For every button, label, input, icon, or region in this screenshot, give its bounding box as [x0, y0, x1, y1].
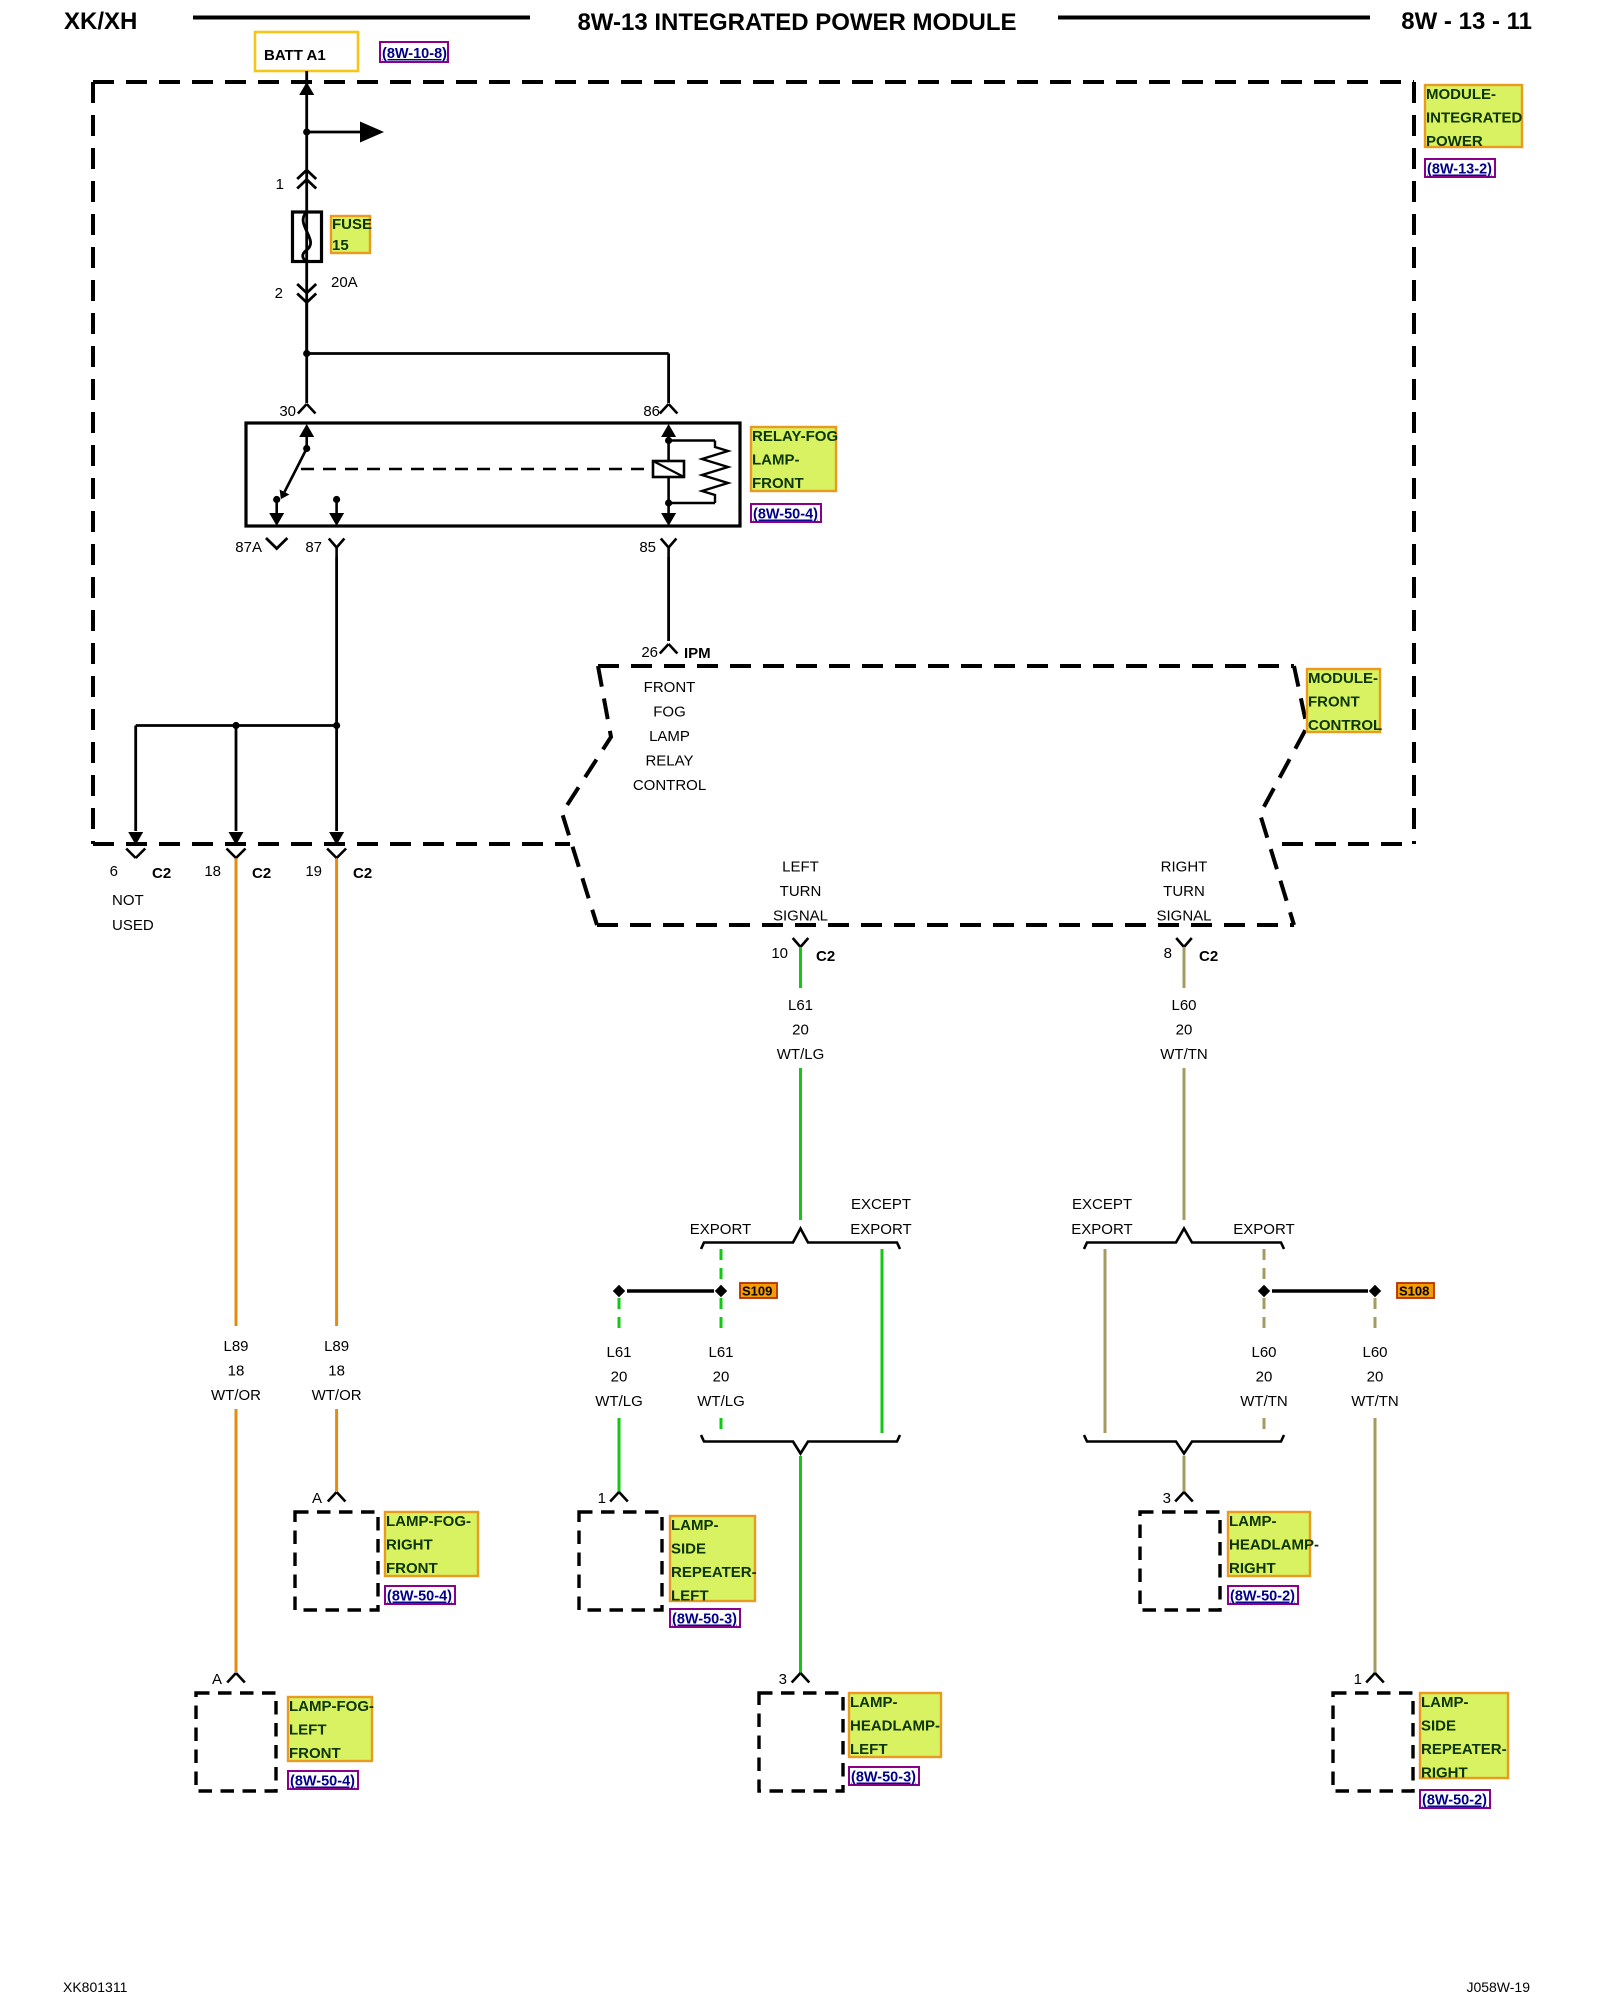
svg-text:(8W-50-4): (8W-50-4): [387, 1589, 452, 1605]
wire relay 85 to IPM pin 26: [667, 557, 670, 641]
svg-text:15: 15: [332, 237, 349, 254]
svg-text:LEFT: LEFT: [782, 859, 819, 876]
svg-text:20A: 20A: [331, 274, 358, 291]
svg-text:CONTROL: CONTROL: [633, 777, 706, 794]
svg-text:FRONT: FRONT: [386, 1560, 438, 1577]
svg-text:(8W-50-2): (8W-50-2): [1230, 1589, 1295, 1605]
label LAMP-FOG- RIGHT FRONT: [385, 1512, 478, 1576]
svg-text:LEFT: LEFT: [289, 1722, 327, 1739]
wire junction to relay pin 30: [305, 354, 308, 404]
svg-text:HEADLAMP-: HEADLAMP-: [1229, 1537, 1319, 1554]
wire below S109 left dashed: [618, 1298, 621, 1330]
label LAMP- SIDE REPEATER- RIGHT: [1420, 1693, 1508, 1778]
svg-text:WT/TN: WT/TN: [1351, 1393, 1398, 1410]
relay pin 85 arrow: [661, 513, 676, 526]
wire below S109 down dashed: [720, 1298, 723, 1330]
relay K1 RELAY-FOG LAMP-FRONT box: [246, 423, 740, 526]
svg-text:WT/LG: WT/LG: [697, 1393, 745, 1410]
label RELAY-FOG LAMP- FRONT: [751, 427, 836, 491]
relay pin 87A arrow: [269, 513, 284, 526]
brace split left turn signal: [701, 1229, 900, 1250]
wire to pin 18: [235, 726, 238, 832]
svg-text:86: 86: [643, 403, 660, 420]
node splice to pin 18: [232, 722, 239, 729]
svg-text:FRONT: FRONT: [289, 1745, 341, 1762]
svg-text:18: 18: [228, 1363, 245, 1380]
node relay coil top: [665, 437, 672, 444]
svg-text:BATT A1: BATT A1: [264, 47, 326, 64]
wire below S108 right dashed: [1374, 1298, 1377, 1330]
node relay common: [303, 445, 310, 452]
label MODULE-FRONT CONTROL: [1307, 669, 1380, 732]
node relay coil bottom: [665, 499, 672, 506]
svg-text:RELAY: RELAY: [645, 753, 693, 770]
wire branch with arrow right: [307, 131, 360, 134]
svg-text:MODULE-: MODULE-: [1308, 670, 1378, 687]
svg-text:20: 20: [792, 1022, 809, 1039]
svg-text:8: 8: [1164, 945, 1172, 962]
svg-text:20: 20: [1176, 1022, 1193, 1039]
relay pin 30 contact arrow: [299, 424, 314, 437]
svg-text:TURN: TURN: [1163, 883, 1205, 900]
switch blade: [285, 449, 307, 493]
svg-text:REPEATER-: REPEATER-: [1421, 1741, 1507, 1758]
relay coil: [667, 441, 670, 462]
svg-text:87A: 87A: [235, 539, 262, 556]
svg-text:FUSE: FUSE: [332, 216, 372, 233]
svg-text:6: 6: [110, 863, 118, 880]
label LAMP- HEADLAMP- RIGHT: [1228, 1512, 1310, 1576]
wire L89 18 WT/OR left: [235, 859, 238, 1327]
svg-text:18: 18: [328, 1363, 345, 1380]
svg-text:(8W-10-8): (8W-10-8): [382, 46, 447, 62]
svg-text:LAMP: LAMP: [649, 728, 690, 745]
svg-text:C2: C2: [353, 865, 372, 882]
wire L60 20 WT/TN from pin 8: [1183, 947, 1186, 988]
module MODULE-FRONT CONTROL dashed outline: [598, 664, 1294, 668]
svg-text:1: 1: [598, 1490, 606, 1507]
wire below S108 down dashed: [1263, 1298, 1266, 1330]
splice S109: [715, 1285, 727, 1297]
node relay 87 contact: [333, 496, 340, 503]
svg-text:C2: C2: [1199, 948, 1218, 965]
svg-text:A: A: [212, 1671, 222, 1688]
svg-text:RIGHT: RIGHT: [1161, 859, 1208, 876]
pin 18 C2 arrow: [229, 832, 244, 845]
wire L89 right lower: [335, 1409, 338, 1491]
wire except-export branch green: [881, 1249, 884, 1433]
connector LAMP-HEADLAMP-RIGHT: [1140, 1512, 1220, 1610]
connector LAMP-FOG-RIGHT FRONT: [295, 1512, 378, 1610]
svg-text:HEADLAMP-: HEADLAMP-: [850, 1718, 940, 1735]
link 8W-10-8: [380, 42, 448, 62]
svg-text:S108: S108: [1399, 1284, 1429, 1299]
node splice at 87 wire: [333, 722, 340, 729]
resistor in relay: [669, 439, 715, 442]
wire to side repeater left: [618, 1418, 621, 1492]
svg-text:L60: L60: [1362, 1344, 1387, 1361]
svg-text:20: 20: [713, 1369, 730, 1386]
svg-text:FRONT: FRONT: [644, 679, 696, 696]
svg-text:L60: L60: [1251, 1344, 1276, 1361]
svg-text:87: 87: [305, 539, 322, 556]
wire battery feed stub: [305, 71, 308, 95]
brace merge left: [701, 1435, 900, 1454]
svg-text:LEFT: LEFT: [850, 1741, 888, 1758]
svg-text:EXCEPT: EXCEPT: [851, 1196, 911, 1213]
svg-text:L89: L89: [223, 1338, 248, 1355]
svg-text:20: 20: [1367, 1369, 1384, 1386]
svg-text:3: 3: [779, 1671, 787, 1688]
svg-text:LAMP-: LAMP-: [1421, 1694, 1469, 1711]
svg-text:WT/LG: WT/LG: [595, 1393, 643, 1410]
svg-text:LEFT: LEFT: [671, 1588, 709, 1605]
arrow up to BATT A1: [299, 82, 314, 95]
wire export branch dashed tan: [1263, 1249, 1266, 1284]
header rule right: [1058, 16, 1370, 20]
svg-text:SIDE: SIDE: [1421, 1718, 1456, 1735]
wire junction to relay pin 86: [307, 352, 669, 355]
svg-text:LAMP-: LAMP-: [752, 452, 800, 469]
wire merged to headlamp left: [799, 1456, 802, 1673]
svg-text:SIGNAL: SIGNAL: [773, 908, 828, 925]
wire branch horizontal: [136, 724, 337, 727]
svg-text:INTEGRATED: INTEGRATED: [1426, 110, 1523, 127]
svg-text:20: 20: [611, 1369, 628, 1386]
svg-text:CONTROL: CONTROL: [1308, 717, 1382, 734]
connector LAMP-HEADLAMP-LEFT: [759, 1693, 843, 1791]
connector LAMP-FOG-LEFT FRONT: [196, 1693, 276, 1791]
svg-text:EXPORT: EXPORT: [1071, 1221, 1132, 1238]
svg-text:(8W-50-4): (8W-50-4): [753, 507, 818, 523]
splice S108: [1258, 1285, 1270, 1297]
wire except-export branch tan: [1104, 1249, 1107, 1433]
connector LAMP-SIDE REPEATER-RIGHT: [1333, 1693, 1413, 1791]
svg-text:L89: L89: [324, 1338, 349, 1355]
brace split right turn signal: [1084, 1229, 1284, 1250]
svg-text:WT/TN: WT/TN: [1240, 1393, 1287, 1410]
svg-text:C2: C2: [252, 865, 271, 882]
wire relay 87 output: [335, 557, 338, 726]
svg-text:10: 10: [771, 945, 788, 962]
svg-text:19: 19: [305, 863, 322, 880]
svg-text:NOT: NOT: [112, 892, 144, 909]
svg-text:SIDE: SIDE: [671, 1541, 706, 1558]
svg-text:(8W-50-3): (8W-50-3): [851, 1770, 916, 1786]
svg-text:XK/XH: XK/XH: [64, 8, 137, 35]
brace merge right: [1084, 1435, 1284, 1454]
svg-text:USED: USED: [112, 917, 154, 934]
power source BATT A1: [255, 32, 358, 71]
svg-text:FOG: FOG: [653, 704, 686, 721]
svg-text:J058W-19: J058W-19: [1466, 1979, 1530, 1995]
svg-text:(8W-50-3): (8W-50-3): [672, 1612, 737, 1628]
relay pin 87 arrow: [329, 513, 344, 526]
svg-text:85: 85: [639, 539, 656, 556]
wire export branch dashed green: [720, 1249, 723, 1284]
svg-text:RIGHT: RIGHT: [1229, 1560, 1276, 1577]
wire merged to headlamp right: [1183, 1456, 1186, 1492]
svg-text:LAMP-: LAMP-: [850, 1694, 898, 1711]
pin 6 C2 arrow: [128, 832, 143, 845]
svg-text:WT/LG: WT/LG: [777, 1046, 825, 1063]
svg-text:SIGNAL: SIGNAL: [1156, 908, 1211, 925]
svg-text:REPEATER-: REPEATER-: [671, 1564, 757, 1581]
pin 19 C2 arrow: [329, 832, 344, 845]
svg-text:S109: S109: [742, 1284, 772, 1299]
svg-text:EXPORT: EXPORT: [1233, 1221, 1294, 1238]
label LAMP- SIDE REPEATER- LEFT: [670, 1516, 755, 1601]
svg-text:(8W-50-4): (8W-50-4): [290, 1774, 355, 1790]
label MODULE-INTEGRATED POWER: [1425, 85, 1522, 147]
label LAMP-FOG- LEFT FRONT: [288, 1697, 372, 1761]
node junction to other circuits: [303, 128, 310, 135]
svg-text:C2: C2: [152, 865, 171, 882]
svg-text:LAMP-: LAMP-: [671, 1517, 719, 1534]
wire to pin 6: [134, 726, 137, 832]
wire to side repeater right: [1374, 1418, 1377, 1673]
svg-text:EXPORT: EXPORT: [690, 1221, 751, 1238]
svg-text:POWER: POWER: [1426, 133, 1483, 150]
wire battery feed vertical: [305, 95, 308, 354]
pin 8 C2 connector: [1176, 938, 1192, 947]
svg-text:MODULE-: MODULE-: [1426, 86, 1496, 103]
svg-text:LAMP-FOG-: LAMP-FOG-: [386, 1513, 471, 1530]
svg-text:A: A: [312, 1490, 322, 1507]
pin 10 C2 connector: [793, 938, 809, 947]
svg-text:1: 1: [1354, 1671, 1362, 1688]
svg-text:18: 18: [204, 863, 221, 880]
svg-text:20: 20: [1256, 1369, 1273, 1386]
wire fuse to relay: [305, 303, 308, 354]
svg-text:RIGHT: RIGHT: [386, 1537, 433, 1554]
svg-text:WT/TN: WT/TN: [1160, 1046, 1207, 1063]
svg-text:LAMP-: LAMP-: [1229, 1513, 1277, 1530]
svg-text:RELAY-FOG: RELAY-FOG: [752, 428, 838, 445]
svg-text:(8W-50-2): (8W-50-2): [1422, 1793, 1487, 1809]
svg-text:WT/OR: WT/OR: [211, 1387, 261, 1404]
svg-text:FRONT: FRONT: [752, 475, 804, 492]
header rule left: [193, 16, 530, 20]
wire L89 left lower: [235, 1409, 238, 1672]
svg-text:30: 30: [279, 403, 296, 420]
svg-text:C2: C2: [816, 948, 835, 965]
svg-text:LAMP-FOG-: LAMP-FOG-: [289, 1698, 374, 1715]
label FUSE 15: [331, 216, 370, 253]
svg-text:8W-13 INTEGRATED POWER MODULE: 8W-13 INTEGRATED POWER MODULE: [577, 9, 1016, 36]
fuse F15: [293, 212, 322, 262]
relay pin 86 contact arrow: [661, 424, 676, 437]
svg-text:(8W-13-2): (8W-13-2): [1427, 162, 1492, 178]
svg-text:L61: L61: [606, 1344, 631, 1361]
svg-text:L60: L60: [1171, 997, 1196, 1014]
module MODULE-INTEGRATED POWER dashed outline: [93, 80, 1414, 84]
svg-text:FRONT: FRONT: [1308, 694, 1360, 711]
node relay 87A contact: [273, 496, 280, 503]
relay control dashed link: [301, 468, 653, 471]
svg-text:L61: L61: [788, 997, 813, 1014]
label LAMP- HEADLAMP- LEFT: [849, 1693, 941, 1757]
connector LAMP-SIDE REPEATER-LEFT: [579, 1512, 662, 1610]
svg-text:26: 26: [641, 644, 658, 661]
svg-text:2: 2: [275, 285, 283, 302]
svg-text:3: 3: [1163, 1490, 1171, 1507]
svg-text:L61: L61: [708, 1344, 733, 1361]
svg-text:EXPORT: EXPORT: [850, 1221, 911, 1238]
svg-text:1: 1: [276, 176, 284, 193]
svg-text:TURN: TURN: [780, 883, 822, 900]
wire L89 18 WT/OR right: [335, 859, 338, 1327]
svg-text:EXCEPT: EXCEPT: [1072, 1196, 1132, 1213]
svg-text:8W - 13 - 11: 8W - 13 - 11: [1401, 8, 1532, 35]
svg-text:RIGHT: RIGHT: [1421, 1765, 1468, 1782]
svg-text:IPM: IPM: [684, 645, 711, 662]
svg-text:XK801311: XK801311: [63, 1979, 128, 1995]
wire L61 20 WT/LG from pin 10: [799, 947, 802, 988]
node fuse output junction: [303, 350, 310, 357]
svg-text:WT/OR: WT/OR: [312, 1387, 362, 1404]
